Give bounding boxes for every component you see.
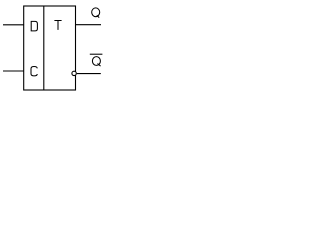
pin label T xyxy=(54,21,61,30)
flip-flop U1 body xyxy=(24,6,76,90)
node label Q-bar with overline xyxy=(90,54,103,66)
wire C input xyxy=(3,70,24,72)
wire D input xyxy=(3,24,24,26)
inversion bubble on Q-bar output xyxy=(72,71,76,75)
pin label D xyxy=(31,21,38,31)
wire Q-bar output xyxy=(77,73,101,75)
cell divider xyxy=(43,6,45,90)
node label Q xyxy=(92,8,100,18)
pin label C xyxy=(31,67,37,76)
wire Q output xyxy=(76,24,102,26)
